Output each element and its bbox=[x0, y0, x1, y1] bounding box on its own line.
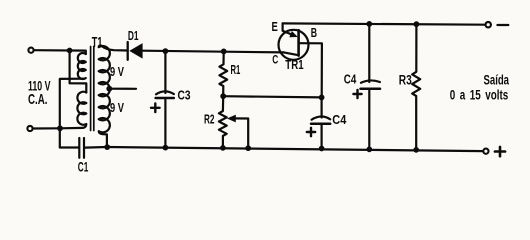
label C3 bbox=[178, 88, 191, 103]
label C bbox=[272, 52, 278, 66]
wire (C4 second top lead) bbox=[368, 24, 370, 82]
plus mark C4 first bbox=[307, 128, 315, 136]
svg-text:E: E bbox=[272, 20, 278, 34]
node (wiper bottom on rail) bbox=[245, 145, 251, 151]
svg-text:0 a 15 volts: 0 a 15 volts bbox=[450, 87, 509, 103]
wire (tap down to lower primary) bbox=[70, 51, 87, 93]
label 9 V lower bbox=[110, 101, 124, 115]
wire (center tap stub) bbox=[109, 88, 136, 90]
node (bottom input junction) bbox=[57, 125, 63, 131]
label R3 bbox=[399, 73, 412, 88]
label C4 second bbox=[344, 73, 357, 87]
node (secondary bottom junction) bbox=[104, 144, 110, 150]
label R2 bbox=[204, 111, 215, 126]
svg-text:D1: D1 bbox=[128, 29, 139, 43]
node (R1 top junction) bbox=[221, 49, 227, 55]
transformer T1 secondary winding bbox=[99, 46, 110, 147]
wire (R1 bottom to base node) bbox=[223, 96, 321, 97]
wire (C1 to secondary bottom) bbox=[85, 146, 107, 149]
terminal J1 (AC input top) bbox=[28, 48, 33, 53]
svg-text:Saída: Saída bbox=[484, 72, 510, 88]
transformer T1 primary winding lower bbox=[77, 92, 86, 128]
node (C4 second top junction) bbox=[366, 21, 372, 27]
potentiometer R2 wiper arrow bbox=[227, 115, 248, 149]
label C.A. bbox=[28, 91, 48, 108]
transistor TR1 bbox=[279, 24, 322, 98]
label R1 bbox=[231, 62, 241, 77]
transformer T1 core bbox=[91, 47, 94, 131]
wire (upper primary bottom stub) bbox=[60, 79, 85, 129]
label B bbox=[311, 26, 317, 40]
wire (D1 to collector rail) bbox=[143, 51, 284, 53]
capacitor C1 bbox=[79, 138, 84, 158]
resistor R3 bbox=[412, 24, 420, 150]
polarity minus sign bbox=[498, 24, 509, 26]
wire (secondary top to D1) bbox=[101, 46, 127, 51]
wire (C4 first bottom lead) bbox=[321, 124, 323, 149]
node (C3 top junction) bbox=[163, 48, 169, 54]
label T1 bbox=[92, 35, 103, 51]
svg-text:C1: C1 bbox=[78, 159, 89, 175]
svg-text:B: B bbox=[311, 26, 317, 40]
node (R3 top junction) bbox=[414, 21, 420, 27]
node (C4 first bottom junction) bbox=[319, 146, 325, 152]
svg-text:R1: R1 bbox=[231, 62, 241, 77]
polarity plus sign bbox=[495, 147, 505, 156]
capacitor C3 bbox=[156, 91, 174, 98]
svg-text:C4: C4 bbox=[344, 73, 357, 87]
node (C3 bottom junction) bbox=[163, 145, 169, 151]
terminal J2 (AC input bottom) bbox=[27, 126, 32, 131]
capacitor C4 (first) bbox=[311, 117, 330, 124]
wire (bottom rail) bbox=[107, 147, 483, 151]
diode D1 bbox=[128, 42, 143, 60]
svg-text:R2: R2 bbox=[204, 111, 215, 126]
svg-text:9 V: 9 V bbox=[110, 101, 124, 115]
wire (junction down to C1) bbox=[60, 128, 78, 147]
wire (C3 bottom lead) bbox=[164, 98, 166, 148]
node (C4 second bottom junction) bbox=[366, 147, 372, 153]
wire (C3 top lead) bbox=[164, 51, 166, 93]
node (base / C4 top junction) bbox=[319, 95, 325, 101]
node (secondary center tap) bbox=[106, 86, 112, 92]
transformer T1 primary winding upper bbox=[78, 53, 86, 79]
svg-text:C4: C4 bbox=[332, 113, 346, 127]
label D1 bbox=[128, 29, 139, 43]
wire (C4 second bottom lead) bbox=[368, 89, 370, 150]
plus mark C4 second bbox=[353, 90, 361, 98]
label 9 V upper bbox=[110, 65, 124, 79]
label C1 bbox=[78, 159, 89, 175]
svg-text:T1: T1 bbox=[92, 35, 103, 51]
node (R1/R2 junction) bbox=[220, 93, 226, 99]
wire (top input to primary) bbox=[35, 50, 86, 54]
node (R2 bottom on rail) bbox=[220, 145, 226, 151]
terminal (output negative) bbox=[486, 22, 491, 27]
svg-text:R3: R3 bbox=[399, 73, 412, 88]
wire (bottom input to primary) bbox=[34, 127, 83, 130]
label TR1 bbox=[285, 58, 303, 72]
resistor R1 bbox=[219, 51, 227, 96]
node (primary parallel tap, top) bbox=[67, 48, 73, 54]
svg-text:TR1: TR1 bbox=[285, 58, 303, 72]
node (R3 bottom junction) bbox=[413, 147, 419, 153]
capacitor C4 (second) bbox=[361, 80, 381, 88]
label 0 a 15 volts bbox=[450, 87, 509, 103]
label Saida bbox=[484, 72, 510, 88]
wire (emitter rail to negative terminal) bbox=[283, 23, 485, 24]
terminal (output positive) bbox=[483, 149, 488, 154]
plus mark C3 bbox=[151, 104, 160, 113]
label C4 first bbox=[332, 113, 346, 127]
label E bbox=[272, 20, 278, 34]
svg-text:9 V: 9 V bbox=[110, 65, 124, 79]
svg-text:C: C bbox=[272, 52, 278, 66]
svg-text:C3: C3 bbox=[178, 88, 191, 103]
label 110 V bbox=[28, 77, 51, 93]
wire (C4 first top lead) bbox=[321, 97, 323, 117]
svg-text:C.A.: C.A. bbox=[28, 91, 48, 108]
potentiometer R2 bbox=[219, 96, 227, 148]
